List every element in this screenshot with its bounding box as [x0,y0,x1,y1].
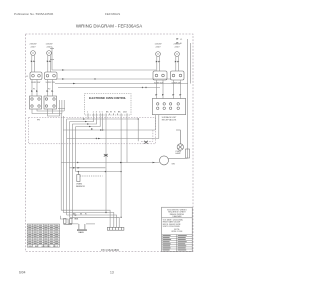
surface element RR coil [156,52,161,57]
splice on x106 wire [104,154,108,156]
notes legend table [162,235,193,252]
svg-text:240V: 240V [155,47,161,49]
notes box [162,207,193,251]
infinite switch RF [45,72,58,80]
svg-text:240V: 240V [174,47,180,49]
svg-text:1: 1 [87,112,88,114]
infinite switch RR [153,71,167,80]
wires right switches to receptacle [157,80,181,99]
long wire y130 to right receptacle [63,129,155,131]
infinite switch LR [171,71,185,80]
oven sensor label [76,184,85,189]
surface element LR coil [175,52,180,57]
svg-text:W: W [80,214,82,216]
main bus wire y70 [52,69,156,71]
wire color code table [27,224,59,247]
staircase labels [73,214,87,221]
svg-text:1250W: 1250W [155,44,163,46]
notes divider [162,217,193,219]
EOC stub down x127 [126,115,128,163]
infinite switch LF [30,72,42,80]
color table footer row [29,246,59,248]
svg-text:SURF SW: SURF SW [31,82,40,84]
left harness vertical bundle [61,114,75,220]
bake element [78,224,87,231]
surface element LF label [30,44,38,49]
wires from left switch area down [58,100,65,116]
legend table text marks [163,235,187,250]
receptacle label [162,116,177,122]
svg-text:SW: SW [172,164,175,166]
crossing X at console corner [144,141,148,144]
jumper connector above color table [64,219,73,225]
svg-text:SURF SW: SURF SW [154,83,163,85]
svg-text:RECEPTACLES: RECEPTACLES [162,119,177,122]
EOC stub down x121 [120,115,122,172]
svg-text:P1: P1 [33,89,35,91]
svg-text:P/N 316244800: P/N 316244800 [101,248,120,252]
switch labels below [26,76,55,84]
EOC terminal ticks [88,113,127,115]
wire y167.8 [70,167,106,169]
svg-text:BAKE: BAKE [79,231,85,234]
svg-text:GROUND: GROUND [42,246,51,248]
console corner inner dash [140,130,153,141]
notes box centered header text [167,210,187,219]
notes paragraph text [163,218,184,228]
svg-text:240V: 240V [30,47,36,49]
svg-text:2: 2 [93,112,94,114]
notes NOTE lines [171,229,183,233]
electronic oven control (EOC) dashed box [85,94,132,116]
component on L1 wire [186,149,190,158]
svg-text:4: 4 [99,112,100,114]
surface element RF coil [47,51,52,56]
connectors on fan wires [83,118,93,130]
svg-text:LAMP: LAMP [175,152,181,155]
svg-text:SURF SW: SURF SW [46,82,55,84]
bus wire y87.5 [58,87,160,89]
EOC long stub down x106 [105,115,107,213]
svg-text:2350W: 2350W [30,44,38,46]
svg-text:WH: WH [29,246,33,248]
console dashed enclosure [29,118,156,144]
terminal strip at bottom [107,227,124,230]
wires: switches down to plugs [32,80,53,97]
oven lamp [176,130,184,150]
plug block P2 [44,96,57,109]
svg-text:3: 3 [96,112,97,114]
main bus wire y84 [55,83,188,85]
EOC terminal labels [87,112,127,114]
svg-text:SURF SW: SURF SW [172,83,181,85]
motor / light switch circle [160,156,169,165]
node L2 feeder wire (left vertical) [50,47,54,70]
wires below plug blocks to harness [32,109,64,116]
svg-text:5: 5 [102,112,103,114]
surface element LF coil [31,51,36,56]
connector arrows right plugs [156,94,182,96]
svg-text:13: 13 [110,271,114,275]
bake element circuit [60,216,95,224]
svg-text:UNITS 1250/2350W: UNITS 1250/2350W [163,226,180,228]
surface receptacle block [152,99,185,115]
EOC stubs and fan wires to left harness [67,115,103,129]
svg-text:SENSOR: SENSOR [76,186,85,188]
surface element RF label [46,44,54,49]
wires: LF element leads to switch [32,55,51,72]
N vertical wire [189,43,191,84]
wire motor to L1 [169,157,188,159]
svg-text:ELECTRONIC OVEN CONTROL: ELECTRONIC OVEN CONTROL [89,97,127,100]
connector arrows on element leads [31,61,52,63]
svg-text:240V: 240V [46,47,52,49]
color table cell text marks [28,225,58,244]
svg-text:W: W [110,112,112,114]
svg-text:Publication No. 5995A10506: Publication No. 5995A10506 [14,12,53,16]
connector arrows P1/P2 [31,90,54,92]
wire y171.6 [76,171,121,173]
dashed diagram border frame [26,34,194,252]
svg-text:WIRING DIAGRAM - FEF336ASA: WIRING DIAGRAM - FEF336ASA [76,24,142,29]
svg-text:FEF336AS: FEF336AS [105,12,120,16]
oven sensor component [77,172,103,182]
plug block P1 [30,96,42,109]
wire into motor from left [61,162,159,164]
right element leads [157,56,179,71]
labels below right switches [154,83,181,85]
long wire y119 to right [88,119,138,141]
wires receptacle down-left [156,115,159,139]
supply terminals L1 N at top right [177,38,179,44]
svg-text:L1/L2: L1/L2 [53,246,59,248]
bottom staircase wires [61,210,119,227]
svg-text:1250W: 1250W [46,44,54,46]
L1 vertical wire [187,39,189,158]
svg-text:6/04: 6/04 [19,271,26,275]
oven lamp label [175,151,181,155]
vertical x121 down [120,172,122,218]
svg-text:W: W [75,215,77,217]
svg-text:WIRE CODE: WIRE CODE [171,231,183,233]
svg-text:P2: P2 [48,89,50,91]
long wire y138.5 to right receptacle [67,138,159,140]
right surface element labels [155,44,182,49]
connector arrows right leads [156,61,180,63]
main bus wire y79 [57,78,171,80]
